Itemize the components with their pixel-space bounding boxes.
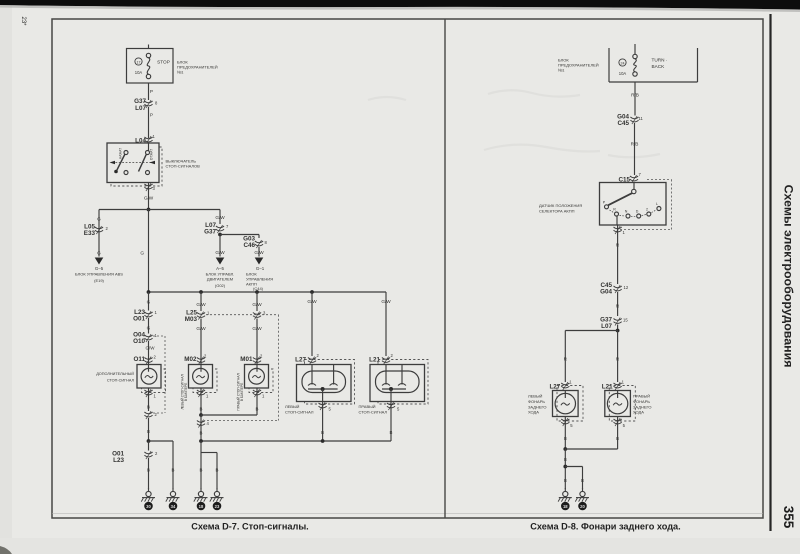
ground 5 (D-8) bbox=[558, 488, 572, 510]
connector L21 pin 2 bbox=[369, 353, 393, 365]
wire G column1 bbox=[147, 292, 151, 311]
svg-text:ЗАДНЕГО: ЗАДНЕГО bbox=[633, 404, 652, 409]
wire G/W column M01 bbox=[252, 292, 262, 311]
wire R between connectors bbox=[616, 292, 620, 316]
svg-text:ХОДА: ХОДА bbox=[633, 410, 644, 415]
connector C15 pin 7 bbox=[618, 172, 671, 183]
wire G main column down bbox=[140, 210, 148, 293]
lamp L27 reverse light bbox=[553, 386, 584, 422]
svg-text:B: B bbox=[581, 478, 584, 483]
svg-text:23*: 23* bbox=[20, 16, 26, 26]
wire G/W column L27 bbox=[307, 292, 317, 356]
svg-text:G/W: G/W bbox=[307, 299, 317, 304]
svg-text:B: B bbox=[321, 430, 324, 435]
connector pin 4 below M junction bbox=[197, 415, 210, 441]
svg-text:M03: M03 bbox=[185, 316, 198, 323]
fuse 17 10A STOP bbox=[135, 53, 170, 78]
svg-text:G/W: G/W bbox=[252, 302, 262, 307]
svg-text:R/B: R/B bbox=[631, 93, 639, 98]
label ПРАВЫЙ ФОНАРЬ ЗАДНЕГО ХОДА bbox=[633, 394, 652, 415]
svg-text:O11: O11 bbox=[133, 356, 145, 363]
wire R to L21 reverse bbox=[616, 331, 620, 383]
svg-text:G: G bbox=[147, 300, 151, 305]
svg-text:B: B bbox=[564, 478, 567, 483]
svg-text:ФОНАРЬ: ФОНАРЬ bbox=[528, 399, 545, 404]
svg-text:P: P bbox=[150, 113, 153, 118]
switch pin 3 and wire G/W bbox=[144, 183, 156, 210]
node bus2 main distribution bbox=[147, 290, 386, 294]
wire R to L27 reverse bbox=[564, 331, 568, 383]
lamp L21 pin 5 wire B bbox=[387, 402, 400, 442]
svg-text:30: 30 bbox=[146, 504, 151, 509]
svg-text:P: P bbox=[150, 89, 153, 94]
svg-text:G/W: G/W bbox=[254, 250, 264, 255]
sidebar heavy rule bbox=[769, 14, 771, 531]
svg-text:В БАМПЕРЕ: В БАМПЕРЕ bbox=[240, 383, 244, 401]
switch contacts and arms bbox=[110, 143, 156, 175]
connector M01 pin 2 bbox=[240, 354, 263, 365]
svg-text:2: 2 bbox=[646, 208, 648, 212]
svg-text:G: G bbox=[97, 251, 101, 256]
svg-text:10A: 10A bbox=[619, 71, 627, 76]
ground 1 left bbox=[141, 488, 155, 510]
ground 6 (D-8) bbox=[575, 488, 589, 510]
connector L07/G37 pin 7 bbox=[204, 222, 229, 236]
svg-text:N: N bbox=[625, 210, 628, 214]
label БЛОК ПРЕДОХРАНИТЕЛЕЙ №1 (D-8) bbox=[558, 58, 599, 73]
connector L04 pin 1 bbox=[135, 134, 155, 145]
svg-text:G/W: G/W bbox=[381, 299, 391, 304]
label ДАТЧИК ПОЛОЖЕНИЯ СЕЛЕКТОРА АКПП bbox=[539, 203, 582, 214]
svg-text:20: 20 bbox=[580, 504, 585, 509]
svg-text:НАЖАТ: НАЖАТ bbox=[119, 148, 123, 159]
svg-text:ДАТЧИК ПОЛОЖЕНИЯ: ДАТЧИК ПОЛОЖЕНИЯ bbox=[539, 203, 582, 208]
caption Схема D-7 bbox=[191, 522, 308, 532]
svg-text:17: 17 bbox=[137, 60, 141, 64]
svg-text:Схемы электрооборудования: Схемы электрооборудования bbox=[782, 185, 796, 368]
svg-text:C46: C46 bbox=[243, 242, 255, 249]
wire R down to C45/G04 bbox=[617, 250, 619, 284]
lamp L27 pin 5 wire B (D-8) bbox=[561, 417, 573, 450]
label ЛЕВЫЙ СТОП-СИГНАЛ bbox=[285, 404, 314, 415]
svg-text:G–5: G–5 bbox=[95, 266, 104, 271]
lamp M01 bumper stop signal bbox=[245, 365, 274, 393]
connector pin 2 below O11 bbox=[144, 411, 157, 441]
svg-text:B: B bbox=[390, 430, 393, 435]
sidebar title Схемы электрооборудования bbox=[782, 185, 796, 368]
svg-text:23: 23 bbox=[215, 504, 220, 509]
lamp O11 additional stop signal bbox=[137, 365, 166, 393]
svg-text:ЛЕВЫЙ: ЛЕВЫЙ bbox=[528, 394, 543, 399]
svg-text:G/W: G/W bbox=[215, 250, 225, 255]
svg-text:(C44): (C44) bbox=[253, 286, 264, 291]
connector O11 pin 2 bbox=[133, 355, 156, 365]
label ЛЕВЫЙ ФОНАРЬ ЗАДНЕГО ХОДА bbox=[528, 394, 547, 415]
wire G below L23 bbox=[147, 318, 151, 334]
svg-text:№1: №1 bbox=[558, 68, 565, 73]
connector O04/O10 pin 1 bbox=[133, 332, 157, 346]
fuse 24 10A TURN BACK bbox=[619, 54, 668, 76]
node D-8 B join bbox=[563, 447, 617, 451]
svg-text:11: 11 bbox=[639, 116, 644, 121]
ground 2 left bbox=[166, 488, 180, 510]
svg-text:355: 355 bbox=[781, 506, 796, 529]
lamp L21 right stop signal bbox=[370, 360, 428, 405]
selector R contact output wire bbox=[616, 216, 618, 225]
lamp L27 pin 5 wire B bbox=[319, 402, 332, 442]
svg-text:G: G bbox=[97, 217, 101, 222]
node M02/M01 B join bbox=[199, 413, 257, 417]
svg-text:ХОДА: ХОДА bbox=[528, 410, 539, 415]
svg-text:СТОП-СИГНАЛ: СТОП-СИГНАЛ bbox=[107, 379, 135, 383]
svg-text:M02: M02 bbox=[184, 356, 197, 363]
label ДОПОЛНИТЕЛЬНЫЙ СТОП-СИГНАЛ bbox=[96, 372, 134, 383]
harness M dashed group bbox=[206, 315, 279, 421]
node reverse lamp split bbox=[565, 325, 619, 333]
wire B to right grounds pair bbox=[200, 441, 219, 489]
svg-text:B: B bbox=[216, 468, 219, 473]
svg-text:СЕЛЕКТОРА АКПП: СЕЛЕКТОРА АКПП bbox=[539, 209, 575, 214]
svg-text:R: R bbox=[613, 208, 616, 212]
wire B to D-8 grounds bbox=[563, 449, 584, 489]
connector G37/L07 pin 15 bbox=[600, 317, 628, 331]
selector pivot and arm bbox=[608, 183, 636, 206]
switch position labels bbox=[119, 148, 154, 160]
ground 3 bbox=[194, 488, 208, 510]
lamp L21 reverse light bbox=[605, 386, 636, 422]
svg-text:B: B bbox=[616, 436, 619, 441]
ground 4 bbox=[210, 488, 224, 510]
connector L25/M03 pin 3 bbox=[253, 311, 266, 320]
svg-text:G/W: G/W bbox=[252, 326, 262, 331]
wire G/W right branch of bus1 bbox=[215, 210, 225, 225]
svg-text:B: B bbox=[200, 431, 203, 436]
svg-text:L07: L07 bbox=[601, 323, 612, 330]
svg-text:(G02): (G02) bbox=[215, 283, 226, 288]
svg-text:ФОНАРЬ: ФОНАРЬ bbox=[633, 399, 650, 404]
wire R/B fuse down bbox=[631, 82, 639, 116]
wire G/W to M01 bbox=[252, 319, 262, 365]
svg-text:18: 18 bbox=[199, 504, 204, 509]
svg-text:G/W: G/W bbox=[144, 196, 154, 201]
svg-text:СТОП-СИГНАЛ: СТОП-СИГНАЛ bbox=[285, 410, 314, 415]
svg-text:ДВИГАТЕЛЕМ: ДВИГАТЕЛЕМ bbox=[207, 277, 233, 282]
scan mark bottom left corner bbox=[0, 546, 12, 554]
svg-text:G/W: G/W bbox=[196, 302, 206, 307]
label ВЫКЛЮЧАТЕЛЬ СТОП-СИГНАЛОВ bbox=[166, 159, 201, 169]
svg-text:№1: №1 bbox=[177, 70, 184, 75]
lamp L21 pin 5 wire B (D-8) bbox=[614, 417, 626, 450]
svg-text:(E19): (E19) bbox=[94, 278, 104, 283]
svg-text:10A: 10A bbox=[135, 70, 143, 75]
scan black band at top edge bbox=[0, 0, 800, 12]
svg-text:18: 18 bbox=[563, 504, 568, 509]
connector L05/E33 pin 2 bbox=[84, 224, 109, 238]
svg-text:B: B bbox=[564, 436, 567, 441]
svg-text:ЛЕВЫЙ: ЛЕВЫЙ bbox=[285, 404, 300, 409]
connector G04/C45 pin 11 bbox=[617, 114, 643, 128]
svg-text:L21: L21 bbox=[369, 357, 380, 364]
connector C15 pin 1 output bbox=[614, 225, 626, 250]
harness O dashed group bbox=[153, 336, 165, 413]
lamp M01 pin 1 wire B bbox=[253, 388, 265, 415]
svg-text:B: B bbox=[147, 405, 150, 410]
fuse block box №1 (D-8) bbox=[609, 44, 698, 82]
selector contacts P R N D 2 L bbox=[603, 201, 661, 219]
svg-text:L27: L27 bbox=[549, 384, 560, 391]
svg-text:G–1: G–1 bbox=[256, 266, 265, 271]
node B bus bottom bbox=[199, 439, 391, 443]
wire P connector to switch L04 bbox=[149, 107, 154, 138]
svg-text:ЗАДНЕГО: ЗАДНЕГО bbox=[528, 404, 547, 409]
svg-text:G/W: G/W bbox=[196, 326, 206, 331]
connector L27 pin 1 (D-8) bbox=[549, 380, 572, 391]
wire G to ABS arrow bbox=[95, 251, 104, 265]
label ЛЕВЫЙ СТОП-СИГНАЛ В БАМПЕРЕ bbox=[181, 374, 189, 409]
connector L27 pin 2 bbox=[295, 353, 319, 365]
svg-text:B: B bbox=[172, 468, 175, 473]
svg-text:E33: E33 bbox=[84, 230, 96, 237]
svg-text:O10: O10 bbox=[133, 338, 145, 345]
svg-text:12: 12 bbox=[624, 285, 629, 290]
svg-text:G37: G37 bbox=[204, 229, 216, 236]
svg-text:TURN ·: TURN · bbox=[652, 58, 668, 63]
svg-text:B: B bbox=[200, 468, 203, 473]
svg-text:B: B bbox=[147, 468, 150, 473]
wire G/W to AT ECU arrow bbox=[254, 247, 264, 265]
fuse block box №1 (D-7) bbox=[127, 45, 174, 84]
connector C45/G04 pin 12 bbox=[600, 282, 629, 296]
svg-text:B: B bbox=[564, 457, 567, 462]
svg-text:B: B bbox=[147, 429, 150, 434]
panel divider line bbox=[444, 19, 446, 518]
AT selector position sensor box bbox=[600, 180, 672, 230]
label ПРАВЫЙ СТОП-СИГНАЛ В БАМПЕРЕ bbox=[237, 373, 245, 410]
svg-text:15: 15 bbox=[623, 318, 628, 323]
lamp O11 pin 1 and wire B bbox=[144, 388, 156, 411]
svg-text:L07: L07 bbox=[135, 105, 146, 112]
connector G03/C46 pin 8 bbox=[243, 236, 267, 250]
lamp M02 pin 1 wire B bbox=[197, 388, 209, 415]
caption Схема D-8 bbox=[530, 522, 680, 532]
connector L25/M03 pin 1 bbox=[185, 310, 210, 324]
node left B junction bbox=[147, 439, 173, 489]
connector L23/O01 pin 1 bbox=[133, 309, 157, 323]
svg-text:D: D bbox=[636, 210, 639, 214]
wire B labels left grounds bbox=[147, 468, 175, 473]
svg-text:B: B bbox=[256, 407, 259, 412]
svg-text:B: B bbox=[200, 407, 203, 412]
svg-text:G/W: G/W bbox=[146, 346, 156, 351]
wire G/W column M02 bbox=[196, 292, 206, 311]
lamp M02 bumper stop signal bbox=[189, 365, 218, 393]
svg-text:БЛОК УПРАВЛЕНИЯ ABS: БЛОК УПРАВЛЕНИЯ ABS bbox=[75, 272, 123, 277]
lamp L27 left stop signal bbox=[297, 360, 355, 405]
svg-text:СТОП-СИГНАЛОВ: СТОП-СИГНАЛОВ bbox=[166, 164, 201, 169]
node bus1 junction bbox=[99, 208, 220, 212]
svg-text:В БАМПЕРЕ: В БАМПЕРЕ bbox=[184, 383, 188, 401]
svg-text:СТОП-СИГНАЛ: СТОП-СИГНАЛ bbox=[359, 410, 388, 415]
svg-text:Схема D-8. Фонари заднего хода: Схема D-8. Фонари заднего хода. bbox=[530, 522, 680, 532]
wire R/B to C15 bbox=[631, 123, 639, 175]
svg-text:M01: M01 bbox=[240, 356, 253, 363]
label ПРАВЫЙ СТОП-СИГНАЛ bbox=[359, 404, 388, 415]
wire G/W to O11 bbox=[146, 341, 156, 365]
label A-5 БЛОК УПРАВЛ. ДВИГАТЕЛЕМ (G02) bbox=[206, 266, 235, 288]
svg-text:Схема D-7. Стоп-сигналы.: Схема D-7. Стоп-сигналы. bbox=[191, 522, 308, 532]
svg-text:G04: G04 bbox=[600, 289, 612, 296]
svg-text:R/B: R/B bbox=[631, 142, 639, 147]
wire G/W column L21 bbox=[381, 292, 391, 356]
wire G/W to M02 bbox=[196, 319, 206, 365]
connector O01/L23 pin 2 ground side bbox=[112, 441, 158, 489]
svg-text:G: G bbox=[147, 326, 151, 331]
svg-text:O01: O01 bbox=[133, 316, 145, 323]
wire G/W to engine ECU arrow bbox=[215, 235, 225, 265]
svg-text:ДОПОЛНИТЕЛЬНЫЙ: ДОПОЛНИТЕЛЬНЫЙ bbox=[96, 372, 134, 376]
svg-text:G: G bbox=[140, 251, 144, 256]
margin note 23* bbox=[20, 16, 26, 26]
svg-text:L23: L23 bbox=[113, 457, 124, 464]
svg-text:STOP: STOP bbox=[157, 60, 170, 65]
svg-text:G/W: G/W bbox=[215, 215, 225, 220]
faint scan smudges upper area bbox=[368, 90, 660, 157]
stop lamp switch box bbox=[107, 143, 162, 186]
svg-text:C45: C45 bbox=[617, 120, 629, 127]
svg-text:24: 24 bbox=[621, 61, 625, 65]
label БЛОК ПРЕДОХРАНИТЕЛЕЙ №1 (D-7) bbox=[177, 60, 218, 75]
connector M02 pin 2 bbox=[184, 354, 207, 365]
svg-text:L21: L21 bbox=[602, 384, 613, 391]
page number 355 bbox=[781, 506, 796, 529]
wire P fuse to connector bbox=[149, 83, 154, 100]
svg-text:ПРАВЫЙ: ПРАВЫЙ bbox=[633, 394, 650, 399]
svg-text:L: L bbox=[656, 202, 658, 206]
connector L21 pin 1 (D-8) bbox=[602, 380, 625, 391]
svg-text:A–5: A–5 bbox=[216, 266, 224, 271]
svg-text:BACK: BACK bbox=[652, 64, 666, 69]
connector G37/L07 pin 8 bbox=[134, 98, 158, 112]
label G-5 БЛОК УПРАВЛЕНИЯ ABS (E19) bbox=[75, 266, 123, 283]
node junction to G03 branch bbox=[218, 233, 259, 238]
label G-1 БЛОК УПРАВЛЕНИЯ АКПП (C44) bbox=[246, 266, 273, 291]
svg-text:ПРАВЫЙ: ПРАВЫЙ bbox=[359, 404, 376, 409]
wire G to ABS branch bbox=[97, 210, 101, 257]
svg-text:ОТЖАТ: ОТЖАТ bbox=[150, 149, 154, 160]
svg-text:34: 34 bbox=[171, 504, 176, 509]
